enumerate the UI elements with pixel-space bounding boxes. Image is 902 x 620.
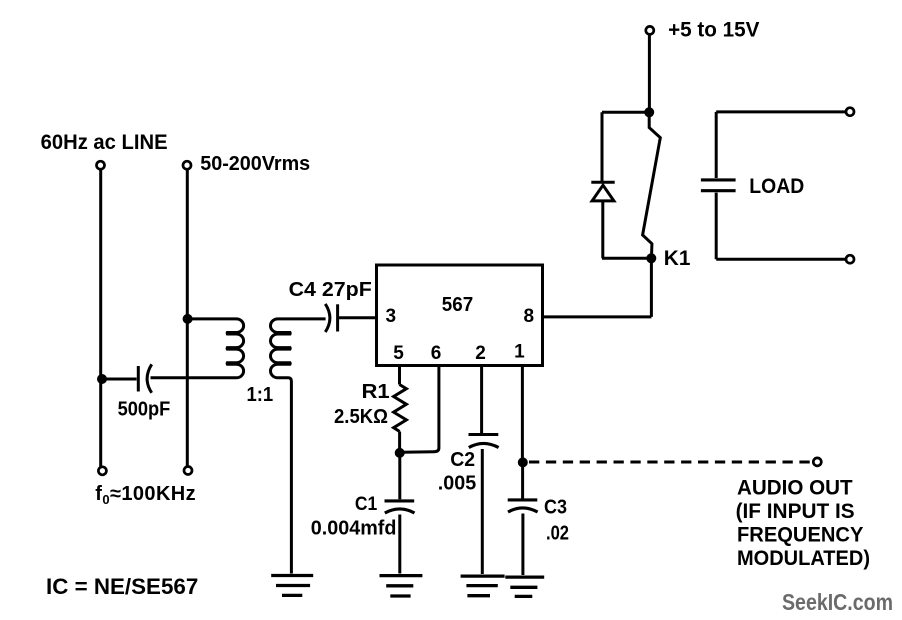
svg-text:C2: C2: [450, 449, 475, 471]
wire pin 5 lead: [398, 366, 401, 385]
svg-text:2.5KΩ: 2.5KΩ: [334, 406, 388, 428]
node junction relay bottom K1: [646, 253, 656, 263]
capacitor 500pF: [138, 364, 151, 393]
capacitor C2: [469, 435, 499, 448]
svg-text:AUDIO OUT: AUDIO OUT: [737, 477, 853, 500]
wire load top: [716, 110, 845, 113]
wire pin 2 lead: [480, 366, 483, 434]
wire junction to C1: [398, 455, 401, 499]
terminal T7 load bottom: [846, 255, 854, 263]
svg-text:500pF: 500pF: [118, 399, 171, 421]
node junction left wire to 500pF: [97, 374, 107, 384]
svg-text:C3: C3: [544, 496, 567, 518]
node junction pin1 C3 audio: [518, 457, 528, 467]
svg-text:FREQUENCY: FREQUENCY: [737, 522, 863, 546]
svg-text:K1: K1: [664, 247, 691, 270]
wire second ac vertical: [186, 170, 189, 467]
svg-text:(IF INPUT IS: (IF INPUT IS: [736, 500, 855, 523]
svg-text:6: 6: [431, 343, 442, 364]
relay K1 switch blade: [643, 113, 661, 254]
terminal T2 50-200Vrms: [183, 161, 191, 169]
capacitor C4: [325, 304, 337, 332]
diode D1 cathode bar: [591, 181, 614, 184]
svg-text:.005: .005: [438, 472, 476, 494]
wire left ac vertical: [99, 170, 102, 467]
wire C2 to ground: [481, 449, 484, 574]
resistor R1: [394, 385, 407, 432]
wire 500pF left lead: [104, 378, 137, 381]
wire relay top to diode branch: [602, 112, 649, 181]
wire diode to relay bottom: [602, 201, 650, 258]
terminal T1 ac line left: [97, 161, 105, 169]
terminal T8 audio out: [813, 458, 821, 466]
diode D1 triangle: [592, 185, 614, 201]
svg-text:C4 27pF: C4 27pF: [289, 279, 372, 301]
svg-text:8: 8: [524, 306, 535, 327]
svg-text:60Hz ac LINE: 60Hz ac LINE: [41, 131, 168, 154]
capacitor C1: [385, 501, 415, 513]
terminal T5 supply: [646, 26, 654, 34]
svg-text:1: 1: [514, 342, 525, 363]
svg-text:IC = NE/SE567: IC = NE/SE567: [46, 574, 198, 599]
svg-text:C1: C1: [355, 494, 378, 515]
wire pin 6 lead bending to junction: [402, 366, 439, 453]
svg-text:50-200Vrms: 50-200Vrms: [200, 153, 310, 175]
ground for transformer secondary: [271, 576, 313, 596]
svg-text:LOAD: LOAD: [749, 175, 804, 198]
wire load vertical lower: [715, 193, 718, 260]
wire load bottom: [716, 258, 845, 261]
wire C3 to ground: [521, 514, 524, 576]
ground for C1: [380, 576, 423, 596]
inductor transformer primary winding with top and bottom leads: [151, 319, 244, 378]
node junction relay top: [644, 107, 654, 117]
terminal T4 bottom second: [184, 467, 192, 475]
wire C1 to ground: [398, 515, 401, 574]
svg-text:f0≈100KHz: f0≈100KHz: [95, 483, 196, 507]
svg-text:0.004mfd: 0.004mfd: [311, 517, 397, 539]
terminal T6 load top: [846, 108, 854, 116]
svg-text:1:1: 1:1: [247, 384, 274, 406]
node junction R1 pin6 C1: [395, 448, 405, 458]
capacitor load plates: [701, 180, 736, 191]
wire R1 bottom lead: [398, 432, 401, 452]
svg-text:2: 2: [475, 343, 486, 364]
inductor transformer secondary winding with top lead and ground lead: [270, 319, 325, 574]
svg-text:.02: .02: [546, 523, 569, 545]
svg-text:5: 5: [393, 343, 404, 364]
capacitor C3: [508, 500, 538, 512]
IC U1 567 tone decoder box: [377, 265, 543, 366]
wire C4 to pin 3: [339, 316, 377, 319]
wire dashed audio out: [529, 461, 812, 464]
ground for C2: [461, 576, 505, 596]
wire supply down to relay: [648, 35, 651, 110]
wire load vertical upper: [715, 112, 718, 178]
svg-text:567: 567: [442, 294, 473, 316]
wire pin 1 lead: [521, 366, 524, 459]
svg-text:3: 3: [386, 306, 397, 327]
svg-text:R1: R1: [362, 381, 390, 403]
terminal T3 bottom left: [98, 467, 106, 475]
svg-text:+5 to 15V: +5 to 15V: [668, 18, 759, 41]
ground for C3: [505, 577, 544, 596]
node junction second wire to primary top: [183, 314, 193, 324]
wire pin 8 to relay: [543, 260, 652, 317]
svg-text:SeekIC.com: SeekIC.com: [782, 589, 893, 615]
svg-text:MODULATED): MODULATED): [737, 546, 870, 570]
wire junction to C3: [521, 464, 524, 499]
